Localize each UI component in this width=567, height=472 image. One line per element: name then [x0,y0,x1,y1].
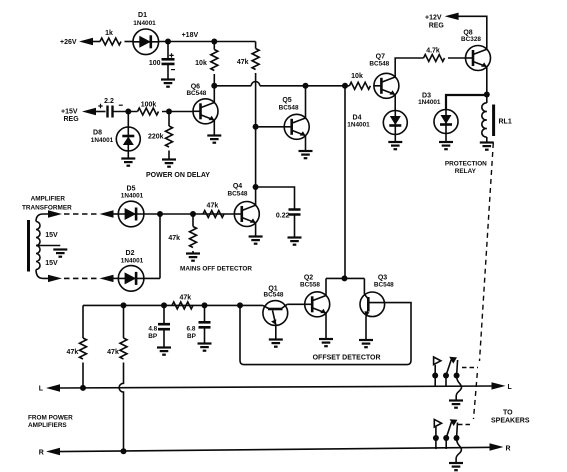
wire 1k to D1 [125,41,134,43]
wire arrow into D5 [100,210,114,217]
wire Q1 emitter [275,325,277,339]
svg-text:D4: D4 [353,115,362,122]
wire Q8 emitter to +12V [458,16,487,49]
svg-text:REG: REG [64,116,80,123]
wire Q2 collector down [325,313,327,338]
svg-text:BC548: BC548 [228,191,248,198]
svg-text:1N4001: 1N4001 [91,137,114,144]
wire Q3 emitter [365,317,367,340]
svg-text:1N4001: 1N4001 [121,193,144,200]
wire Q7 collector [395,58,423,77]
capacitor 4.8 BP [163,305,165,323]
wire D3 bottom lead [445,134,447,142]
wire offset detector vertical line [344,86,346,279]
ground centre tap [53,250,67,257]
svg-text:TRANSFORMER: TRANSFORMER [22,205,72,212]
transistor Q7 BC548 [374,73,399,98]
transistor Q5 BC548 [284,114,309,139]
svg-text:47k: 47k [67,349,79,356]
node junction Q5 collector [303,83,309,89]
svg-text:100k: 100k [141,101,157,108]
svg-text:D5: D5 [127,186,136,193]
ground Q2 [319,339,333,346]
relay contact R common arm [445,438,447,449]
svg-text:AMPLIFIER: AMPLIFIER [31,196,66,203]
wire Q4 emitter [255,223,257,236]
svg-text:10k: 10k [195,60,207,67]
wire Q7 emitter to D4 [394,95,396,111]
svg-text:TO: TO [503,410,513,417]
resistor 100k [138,108,159,115]
wire transformer centre tap [36,245,60,247]
svg-text:L: L [508,384,513,391]
relay contact R ground side [454,435,460,441]
capacitor 6.8 BP [204,305,206,321]
node junction bus/offset line [342,83,348,89]
svg-text:4.7k: 4.7k [426,48,440,55]
transistor Q3 BC548 [360,292,385,317]
transistor Q1 BC548 [263,301,288,326]
ground C100 [161,80,175,87]
transistor Q2 BC558 [305,292,330,317]
capacitor 100u [162,59,175,64]
ground Q5 emitter [299,151,313,158]
wire Q6 collector to Q7 base bus [214,85,251,87]
wire 47k down with hop over L line [119,363,123,452]
svg-text:POWER ON DELAY: POWER ON DELAY [146,172,210,179]
wire down to Q3 [363,278,365,294]
ground Q3 [359,340,373,347]
capacitor 2.2u tantalum [108,106,113,118]
wire D5 to junction [144,213,234,215]
node junction Q4 collector [253,184,259,190]
wire 220k top lead [168,112,170,127]
wire Q3 collector return loop [240,303,411,365]
relay contact L ground side [454,373,460,379]
node junction Q8/D3/relay [484,92,490,98]
wire C100 bottom lead [167,64,169,79]
resistor 10k vertical [211,50,218,71]
wire relay bottom lead [486,137,488,142]
svg-text:15V: 15V [45,260,58,267]
transformer core [27,220,30,272]
wire Q8 collector [486,67,488,103]
ground D4 [388,142,402,149]
wire +26V to R 1k [91,41,100,43]
wire left 47k leg [82,305,84,338]
svg-text:47k: 47k [207,203,219,210]
svg-text:+12V: +12V [425,15,442,22]
node junction rail/Q3 return [237,302,243,308]
node junction 100k/220k [166,109,172,115]
svg-text:220k: 220k [148,134,164,141]
node junction L line [80,385,86,391]
svg-text:REG: REG [429,23,445,30]
wire Q2 emitter up [325,278,327,295]
transistor Q4 BC548 [234,202,259,227]
ground Q4 emitter [249,237,263,244]
wire D2 to junction [144,277,160,279]
svg-text:PROTECTION: PROTECTION [445,161,487,168]
diode D1 1N4001 [133,29,159,55]
wire L line [58,386,494,388]
resistor 1k [100,38,121,45]
resistor 10k Q7 base [349,82,370,89]
node junction rail/C4.8 [161,302,167,308]
wire 10k top lead [213,42,215,50]
svg-text:1N4001: 1N4001 [121,257,144,264]
wire Q6 collector [213,86,215,103]
svg-text:47k: 47k [237,59,249,66]
svg-text:2.2: 2.2 [104,98,114,105]
wire to Q6 base [162,111,193,113]
node junction C2.2/D8 [125,109,131,115]
wire D8 top lead [127,112,129,128]
svg-text:OFFSET DETECTOR: OFFSET DETECTOR [313,355,381,362]
ground D3 [439,142,453,149]
wire transformer top lead [36,214,49,222]
wire L input arrow [46,384,60,391]
svg-text:Q4: Q4 [233,183,242,190]
svg-text:1N4001: 1N4001 [347,122,370,129]
wire Q6 emitter [213,120,215,134]
node junction Q5 base [253,124,259,130]
wire Q1 collector to Q2 base [287,303,305,305]
svg-text:+18V: +18V [182,32,199,39]
wire +15V arrow [82,108,96,115]
resistor 47k left sense [80,338,87,359]
wire D5/D2 join vertical [159,214,161,278]
diode D2 1N4001 [118,266,144,292]
wire +15V to C2.2 [94,111,106,113]
svg-text:R: R [39,450,44,457]
relay contact L common arm [445,376,447,387]
wire bus continues to 10k [260,85,350,87]
wire C6.8 bottom lead [204,327,206,342]
node junction rail/47k right sense [121,302,127,308]
svg-text:D1: D1 [138,12,147,19]
svg-text:BC548: BC548 [279,105,299,112]
svg-text:SPEAKERS: SPEAKERS [491,417,530,424]
wire R output arrow [490,443,504,450]
wire offset sense rail [83,304,263,306]
wire D8 bottom lead [127,151,129,158]
relay contact L fixed open [434,365,436,387]
wire 4.7k to Q8 base [448,57,466,59]
wire right 47k leg [123,305,125,338]
svg-text:FROM POWER: FROM POWER [28,414,73,421]
svg-text:BC548: BC548 [369,60,389,67]
transistor Q8 BC328 [466,46,491,71]
node junction D5/D2 [157,211,163,217]
diode D5 1N4001 [118,201,144,227]
wire top winding arrow right [48,210,62,217]
svg-text:MAINS OFF DETECTOR: MAINS OFF DETECTOR [180,266,252,273]
svg-text:D8: D8 [93,130,102,137]
svg-text:Q5: Q5 [282,97,291,104]
wire left 47k to L line [82,363,84,388]
wire Q5 collector [305,86,307,118]
svg-text:RELAY: RELAY [455,168,477,175]
ground R contact [449,463,463,470]
svg-text:0.22: 0.22 [276,212,290,219]
wire Q5 emitter [305,136,307,150]
svg-text:BC548: BC548 [186,90,206,97]
svg-text:BP: BP [187,333,197,340]
transistor Q6 BC548 [193,99,218,124]
svg-text:47k: 47k [107,349,119,356]
svg-text:100: 100 [149,60,161,67]
wire L output arrow [492,382,506,389]
diode D4 1N4001 [383,111,407,135]
ground Q6 emitter [207,136,221,143]
resistor 47k series offset [172,302,193,309]
diode D8 1N4001 [116,127,140,151]
wire C0.22 bottom lead [294,215,296,237]
wire +12V arrow [445,13,459,20]
ground C4.8 [157,348,171,355]
wire relay mechanical link dashed [480,143,494,361]
ground 47k mains off [186,254,200,261]
svg-text:6.8: 6.8 [187,326,196,333]
wire bottom winding arrow right [48,275,62,282]
svg-text:BC548: BC548 [264,292,284,299]
wire 10k bottom lead [213,74,215,86]
svg-text:47k: 47k [179,294,191,301]
svg-text:RL1: RL1 [499,119,512,126]
node junction R line [121,448,127,454]
ground relay [480,143,494,150]
svg-text:+15V: +15V [61,109,78,116]
node junction D1/C100 [165,39,171,45]
wire arrow into D2 [100,275,114,282]
svg-text:R: R [506,446,511,453]
svg-text:47k: 47k [168,235,180,242]
ground Q1 [269,340,283,347]
wire dashed link to D2 [64,277,97,279]
resistor 47k Q4 base [203,211,224,218]
relay RL1 coil [482,103,487,137]
node junction 47k mains detector [190,211,196,217]
svg-text:4.8: 4.8 [148,326,157,333]
wire R input arrow [46,448,60,455]
resistor 47k vertical top [255,42,257,49]
wire +26V arrow [79,38,93,45]
transformer winding [36,222,40,270]
wire +18V rail [159,41,256,43]
wire C4.8 bottom lead [163,329,165,346]
resistor 4.7k [424,55,445,62]
svg-text:+26V: +26V [60,39,77,46]
node junction rail/10k [211,39,217,45]
wire transformer bottom lead [36,270,49,279]
ground 220k [162,160,176,167]
svg-text:1k: 1k [105,30,113,37]
svg-text:1N4001: 1N4001 [418,99,441,106]
svg-text:10k: 10k [351,73,363,80]
svg-text:Q2: Q2 [304,275,313,282]
ground C0.22 [288,238,302,245]
wire C100 top lead [167,42,169,59]
capacitor 0.22 [289,210,301,215]
wire Q5 base lead [256,126,285,128]
node junction offset line [342,275,348,281]
svg-text:15V: 15V [45,232,58,239]
svg-text:1N4001: 1N4001 [133,20,156,27]
wire 47k top lead [192,214,194,227]
svg-text:BP: BP [148,333,158,340]
wire D3 to relay junction [446,95,487,110]
wire 47k down to Q5 base and Q4 collector [255,73,257,187]
svg-text:D2: D2 [126,250,135,257]
svg-text:BC548: BC548 [374,281,394,288]
relay contact R fixed open [435,427,437,449]
ground L contact [449,401,463,408]
wire hop over 47k vertical [251,82,260,86]
svg-text:BC558: BC558 [300,282,320,289]
svg-text:AMPLIFIERS: AMPLIFIERS [28,422,67,429]
wire 220k bottom lead [168,151,170,159]
ground C6.8 [198,344,212,351]
svg-text:L: L [39,386,44,393]
wire R line [58,447,494,451]
svg-text:BC328: BC328 [461,36,481,43]
wire dashed link to D5 [64,213,97,215]
wire Q4 collector [255,187,257,205]
wire Q4 collector to C0.22 [256,187,295,209]
wire Q2 to offset line junction [326,277,364,279]
node junction 10k/Q6 collector [211,83,217,89]
diode D3 1N4001 [434,110,458,134]
resistor 47k mains off vertical [190,227,197,248]
node junction rail/C6.8 [202,302,208,308]
wire D4 bottom lead [394,135,396,142]
resistor 220k vertical [166,126,173,147]
ground D8 [121,159,135,166]
resistor 47k right sense [120,338,127,359]
wire C2.2 to junction [113,111,138,113]
